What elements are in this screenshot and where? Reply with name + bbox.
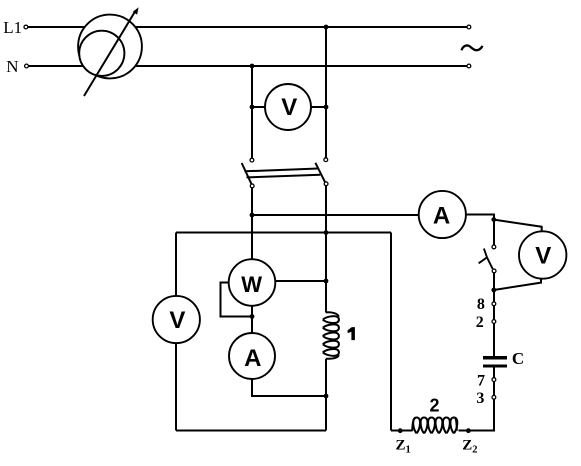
coil 2 entry ramp <box>412 418 415 431</box>
switch S1 contact lower-right <box>324 182 328 186</box>
wire switch left pole b down to coil 1 <box>325 186 327 312</box>
junction dot bus/coil branch <box>324 230 329 235</box>
wire wattmeter right to coil branch <box>276 280 327 282</box>
terminal L1 <box>24 25 28 29</box>
wire branch to ammeter A2 <box>252 214 419 216</box>
autotransformer arrowhead <box>133 7 139 14</box>
svg-text:7: 7 <box>477 372 485 389</box>
terminal 3 <box>492 395 496 399</box>
autotransformer T1 outer circle <box>78 15 142 79</box>
switch S2 contact upper <box>492 245 496 249</box>
wire stub right of voltmeter V1 <box>311 106 326 108</box>
junction dot V1 left <box>250 105 255 110</box>
wire vertical from L1 to switch left pole b <box>325 27 327 158</box>
switch S2 contact lower <box>492 269 496 273</box>
svg-text:N: N <box>6 57 18 76</box>
ammeter A2 circle <box>419 191 466 238</box>
wattmeter W circle <box>229 259 276 306</box>
svg-text:V: V <box>535 242 551 269</box>
junction dot wattmeter right <box>324 279 329 284</box>
label coil 1 <box>348 327 355 340</box>
terminal right bottom <box>467 64 471 68</box>
svg-text:L1: L1 <box>3 18 22 37</box>
switch S1 blade left pole <box>242 163 252 185</box>
wire wattmeter to ammeter A1 <box>251 306 253 333</box>
switch S1 contact upper-right <box>324 158 328 162</box>
wire wattmeter voltage-coil hook <box>221 283 253 317</box>
junction dot V3 top diagonal <box>491 217 496 222</box>
wire N line <box>28 65 468 67</box>
wire ammeter A1 bottom to coil branch <box>252 379 326 396</box>
voltmeter V3 circle <box>519 231 566 278</box>
terminal 8 <box>492 302 496 306</box>
wire down to voltmeter V2 <box>175 233 177 297</box>
wire L1 line <box>28 26 468 28</box>
wire bottom rail <box>176 430 326 432</box>
junction dot V3 bottom diagonal <box>491 288 496 293</box>
wire right vertical of load loop <box>390 233 392 431</box>
wire bottom left stub to coil 2 <box>391 430 413 432</box>
junction dot Z2 <box>466 428 471 433</box>
inductor coil 2 loops <box>413 417 457 433</box>
svg-text:A: A <box>244 345 261 372</box>
wire ammeter A2 to right switch <box>466 215 494 246</box>
junction dot coil1 bottom <box>324 394 329 399</box>
terminal 2 <box>492 320 496 324</box>
terminal N <box>25 64 29 68</box>
svg-text:C: C <box>512 349 524 368</box>
wire switch left pole a down to wattmeter W <box>251 188 253 259</box>
svg-text:A: A <box>433 203 450 230</box>
wire diagonal to voltmeter V3 bottom <box>494 279 541 290</box>
coil 2 exit ramp <box>455 418 457 431</box>
svg-text:3: 3 <box>476 390 484 407</box>
terminal 7 <box>492 378 496 382</box>
wire vertical from N to switch left pole a <box>251 66 253 158</box>
wire horizontal bus to load branch <box>176 232 391 234</box>
capacitor C bottom plate <box>483 364 507 367</box>
terminal right top <box>467 25 471 29</box>
coil 1 exit curve <box>326 355 339 359</box>
junction dot A2 branch <box>250 213 255 218</box>
junction dot N/branch <box>250 64 255 69</box>
capacitor C top plate <box>483 356 507 359</box>
inductor coil 1 loops <box>323 316 339 356</box>
autotransformer T1 adjustment arrow <box>84 10 136 96</box>
wire voltmeter V2 to bottom rail <box>175 343 177 431</box>
wire stub left of voltmeter V1 <box>252 106 265 108</box>
voltmeter V2 circle <box>153 296 200 343</box>
svg-text:8: 8 <box>477 296 485 313</box>
switch S1 coupling bar lower line <box>247 175 321 178</box>
svg-text:V: V <box>281 94 297 121</box>
wire coil 1 to bottom rail <box>325 359 327 431</box>
autotransformer T1 inner circle <box>79 31 124 76</box>
voltmeter V1 circle <box>265 84 311 130</box>
ac source tilde symbol <box>462 45 483 50</box>
svg-text:V: V <box>169 307 185 334</box>
junction dot Z1 <box>398 428 403 433</box>
switch S1 contact upper-left <box>250 158 254 162</box>
ammeter A1 circle <box>229 333 275 379</box>
wire right branch upper (to capacitor) <box>493 273 495 357</box>
svg-text:2: 2 <box>429 395 439 415</box>
svg-text:W: W <box>241 272 262 297</box>
junction dot V1 right <box>324 105 329 110</box>
wire right branch lower (capacitor to bottom) <box>458 367 494 431</box>
switch S1 blade right pole <box>315 163 325 184</box>
svg-text:2: 2 <box>476 314 484 331</box>
switch S1 coupling bar upper line <box>245 169 319 172</box>
wire diagonal to voltmeter V3 top <box>494 220 542 232</box>
switch S1 contact lower-left <box>250 184 254 188</box>
junction dot L1/branch <box>324 25 329 30</box>
switch S2 blade <box>479 249 493 269</box>
junction dot wattmeter hook <box>250 314 255 319</box>
coil 1 entry curve <box>326 312 339 316</box>
